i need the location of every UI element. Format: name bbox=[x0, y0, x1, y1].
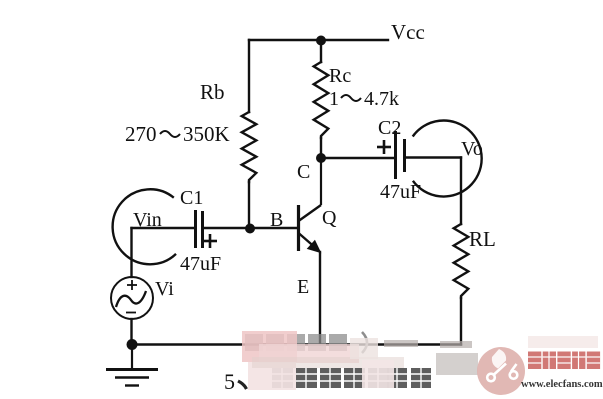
svg-text:C2: C2 bbox=[378, 117, 401, 139]
wire emitter vertical bbox=[319, 252, 321, 345]
svg-text:Vi: Vi bbox=[155, 278, 174, 300]
wire bottom rail bbox=[132, 343, 462, 345]
wire Rc to node C bbox=[320, 138, 322, 158]
svg-text:270: 270 bbox=[125, 122, 157, 146]
wire node C to C2 bbox=[321, 157, 395, 159]
wire Vi to bottom rail bbox=[130, 319, 132, 345]
wire RL to bottom rail bbox=[460, 298, 462, 345]
transistor Q bbox=[299, 158, 322, 253]
watermark elecfans logo bbox=[477, 347, 525, 395]
output port circle (Vo) bbox=[413, 121, 482, 197]
node C bbox=[316, 153, 326, 163]
wire input left horizontal bbox=[132, 227, 196, 229]
wire left vertical above Rb bbox=[248, 40, 250, 112]
svg-text:Rc: Rc bbox=[329, 65, 351, 87]
svg-text:Vo: Vo bbox=[461, 138, 483, 160]
capacitor C1 bbox=[196, 210, 203, 248]
resistor RL bbox=[454, 224, 469, 298]
wire top rail bbox=[249, 39, 388, 41]
wire Vcc branch to Rc bbox=[320, 40, 322, 62]
svg-text:5: 5 bbox=[224, 369, 235, 394]
svg-text:Q: Q bbox=[322, 207, 337, 229]
label C2 polarity + bbox=[377, 140, 391, 154]
node Vcc junction bbox=[316, 36, 326, 46]
svg-text:C: C bbox=[297, 161, 310, 183]
resistor Rb bbox=[242, 112, 257, 182]
svg-text:RL: RL bbox=[469, 227, 496, 251]
svg-text:350K: 350K bbox=[183, 122, 230, 146]
svg-text:Vin: Vin bbox=[133, 209, 162, 231]
svg-text:C1: C1 bbox=[180, 187, 203, 209]
watermark red text 电子发烧友 bbox=[528, 352, 600, 370]
svg-text:Vcc: Vcc bbox=[391, 20, 425, 44]
capacitor C2 bbox=[396, 131, 405, 179]
input port circle (Vin) bbox=[113, 189, 176, 264]
wire Rb to node B bbox=[248, 182, 250, 228]
watermark gray text 电子电路图） bbox=[245, 332, 367, 353]
wire right vertical above RL bbox=[460, 158, 462, 225]
ground bbox=[106, 345, 158, 386]
wire C1 to node B bbox=[203, 227, 299, 229]
node B bbox=[245, 224, 255, 234]
wire C2 to output corner bbox=[405, 156, 462, 158]
watermark faint pink ghost above red text bbox=[528, 336, 598, 348]
svg-text:B: B bbox=[270, 209, 283, 231]
label C1 polarity + bbox=[203, 234, 217, 248]
svg-text:4.7k: 4.7k bbox=[364, 88, 399, 110]
resistor Rc bbox=[314, 62, 329, 138]
svg-text:www.elecfans.com: www.elecfans.com bbox=[521, 379, 603, 390]
node ground junction bbox=[127, 339, 138, 350]
source Vi bbox=[111, 277, 153, 319]
wire left vertical to Vi bbox=[130, 228, 132, 277]
svg-text:47uF: 47uF bbox=[380, 181, 421, 203]
svg-text:47uF: 47uF bbox=[180, 253, 221, 275]
watermark pink blur patches bbox=[242, 331, 478, 390]
svg-text:1: 1 bbox=[329, 88, 339, 110]
watermark faint gray marks right bbox=[384, 340, 472, 348]
svg-text:E: E bbox=[297, 276, 309, 298]
svg-text:Rb: Rb bbox=[200, 80, 225, 104]
